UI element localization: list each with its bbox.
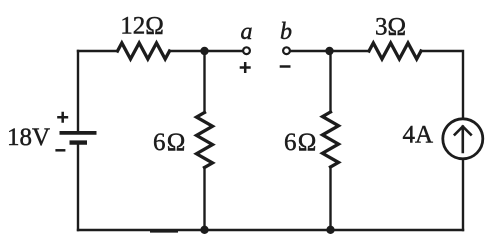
wire from 3ohm to top right corner and down <box>421 51 463 118</box>
svg-text:6Ω: 6Ω <box>284 129 317 156</box>
resistor 6ohm branch 1 bottom lead <box>203 168 205 231</box>
resistor 6ohm #2 zigzag <box>323 112 339 167</box>
junction dot bottom left <box>200 226 208 234</box>
wire bottom <box>78 229 463 231</box>
resistor 3ohm zigzag <box>369 43 421 59</box>
resistor 6ohm #1 zigzag <box>197 113 213 168</box>
wire from 12ohm to node a <box>170 50 243 52</box>
battery V1 18V long plate <box>60 131 97 135</box>
current source arrow <box>455 127 471 153</box>
battery plus sign <box>57 112 68 123</box>
terminal b open circle <box>283 47 290 54</box>
resistor 6ohm branch 2 top lead <box>329 51 331 112</box>
wire top left lead <box>78 50 118 52</box>
wire artifact segment <box>151 231 177 233</box>
resistor 6ohm branch 2 bottom lead <box>329 167 331 230</box>
wire left vertical bottom <box>77 143 79 230</box>
battery V1 18V short plate <box>70 140 88 144</box>
terminal a open circle <box>243 47 250 54</box>
junction dot bottom right <box>326 226 334 234</box>
svg-text:12Ω: 12Ω <box>120 13 164 40</box>
battery minus sign <box>55 149 65 152</box>
svg-text:18V: 18V <box>7 124 50 151</box>
junction dot top left <box>200 47 208 55</box>
resistor 12ohm zigzag <box>118 43 170 59</box>
wire left vertical top <box>77 51 79 131</box>
node plus polarity mark <box>240 62 251 73</box>
svg-text:b: b <box>280 19 292 45</box>
node minus polarity mark <box>280 65 291 68</box>
wire from terminal b to node <box>291 50 369 52</box>
wire right vertical bottom <box>462 160 464 230</box>
junction dot top right <box>325 47 333 55</box>
current source I1 4A circle <box>443 119 483 159</box>
svg-text:3Ω: 3Ω <box>375 14 406 41</box>
svg-text:6Ω: 6Ω <box>153 129 186 156</box>
resistor 6ohm branch 1 top lead <box>203 51 205 113</box>
svg-text:4A: 4A <box>403 122 434 149</box>
svg-text:a: a <box>241 19 253 45</box>
